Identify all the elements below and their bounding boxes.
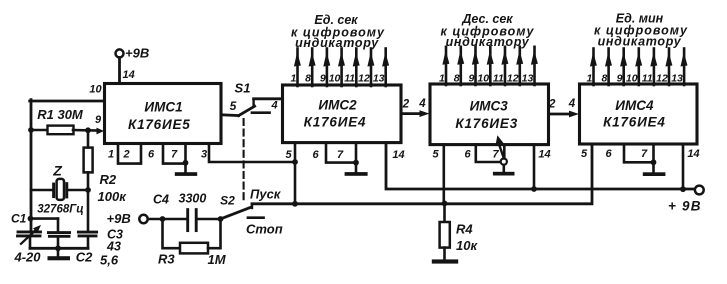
- svg-text:32768Гц: 32768Гц: [37, 204, 83, 216]
- svg-text:6: 6: [312, 149, 319, 161]
- svg-text:8: 8: [305, 73, 311, 85]
- svg-text:7: 7: [492, 149, 499, 161]
- svg-text:4: 4: [568, 98, 576, 110]
- svg-text:1М: 1М: [208, 252, 227, 267]
- svg-text:100к: 100к: [98, 189, 128, 204]
- svg-text:7: 7: [337, 149, 344, 161]
- svg-text:4-20: 4-20: [14, 250, 42, 265]
- svg-text:11: 11: [344, 73, 355, 85]
- svg-text:5: 5: [230, 99, 237, 113]
- svg-text:1: 1: [586, 73, 592, 85]
- svg-text:12: 12: [507, 73, 519, 85]
- svg-text:13: 13: [671, 73, 683, 85]
- svg-text:С1: С1: [11, 212, 27, 226]
- svg-text:Стоп: Стоп: [246, 222, 283, 237]
- svg-text:4: 4: [270, 100, 277, 112]
- svg-text:С2: С2: [76, 250, 93, 265]
- svg-text:S1: S1: [235, 81, 251, 96]
- svg-text:ИМС3: ИМС3: [470, 98, 509, 113]
- svg-text:14: 14: [687, 148, 699, 160]
- svg-text:9: 9: [320, 73, 326, 85]
- svg-text:8: 8: [454, 73, 460, 85]
- svg-text:R1 30М: R1 30М: [37, 107, 84, 122]
- svg-text:10: 10: [477, 73, 489, 85]
- svg-text:индикатору: индикатору: [598, 35, 682, 49]
- svg-text:13: 13: [522, 73, 534, 85]
- svg-text:7: 7: [641, 148, 648, 160]
- svg-text:10: 10: [626, 73, 638, 85]
- svg-text:S2: S2: [220, 193, 235, 207]
- svg-text:индикатору: индикатору: [295, 36, 379, 50]
- svg-text:13: 13: [373, 73, 385, 85]
- svg-text:14: 14: [538, 149, 550, 161]
- svg-text:2: 2: [548, 99, 556, 111]
- svg-text:4: 4: [418, 98, 426, 110]
- svg-text:R3: R3: [158, 252, 175, 267]
- svg-text:С4: С4: [153, 193, 169, 207]
- svg-text:5,6: 5,6: [100, 253, 119, 268]
- svg-text:R2: R2: [100, 172, 117, 187]
- svg-text:индикатору: индикатору: [446, 35, 530, 49]
- svg-text:К176ИЕ3: К176ИЕ3: [455, 116, 518, 131]
- svg-text:5: 5: [581, 148, 588, 160]
- svg-text:1: 1: [290, 73, 296, 85]
- svg-text:1: 1: [439, 73, 445, 85]
- svg-text:10к: 10к: [456, 238, 478, 253]
- svg-text:3300: 3300: [179, 192, 207, 206]
- svg-text:6: 6: [605, 148, 612, 160]
- svg-text:+9В: +9В: [125, 46, 149, 61]
- svg-text:10: 10: [329, 73, 341, 85]
- svg-text:7: 7: [171, 149, 178, 161]
- svg-text:1: 1: [108, 149, 114, 161]
- svg-text:12: 12: [656, 73, 668, 85]
- svg-text:11: 11: [642, 73, 653, 85]
- svg-text:11: 11: [493, 73, 504, 85]
- svg-text:ИМС2: ИМС2: [318, 98, 357, 113]
- svg-text:43: 43: [106, 240, 121, 254]
- svg-text:9: 9: [617, 73, 623, 85]
- svg-text:ИМС4: ИМС4: [615, 98, 654, 113]
- svg-text:К176ИЕ5: К176ИЕ5: [128, 117, 191, 132]
- svg-text:К176ИЕ4: К176ИЕ4: [304, 115, 367, 130]
- svg-text:3: 3: [201, 149, 207, 161]
- svg-text:Z: Z: [52, 163, 62, 179]
- svg-text:9: 9: [468, 73, 474, 85]
- svg-text:Пуск: Пуск: [250, 187, 282, 202]
- svg-text:+ 9В: + 9В: [668, 199, 702, 214]
- svg-text:6: 6: [464, 149, 471, 161]
- svg-text:8: 8: [602, 73, 608, 85]
- svg-text:5: 5: [432, 149, 439, 161]
- svg-text:ИМС1: ИМС1: [144, 100, 182, 115]
- svg-text:12: 12: [358, 73, 370, 85]
- svg-text:+9В: +9В: [107, 211, 131, 226]
- svg-text:2: 2: [122, 149, 129, 161]
- svg-text:К176ИЕ4: К176ИЕ4: [603, 115, 666, 130]
- svg-text:2: 2: [402, 99, 410, 111]
- svg-text:R4: R4: [456, 222, 473, 237]
- svg-text:14: 14: [123, 69, 135, 81]
- svg-text:10: 10: [89, 84, 102, 96]
- svg-text:9: 9: [95, 114, 102, 126]
- svg-text:6: 6: [148, 149, 155, 161]
- svg-text:14: 14: [392, 149, 404, 161]
- svg-text:5: 5: [285, 149, 292, 161]
